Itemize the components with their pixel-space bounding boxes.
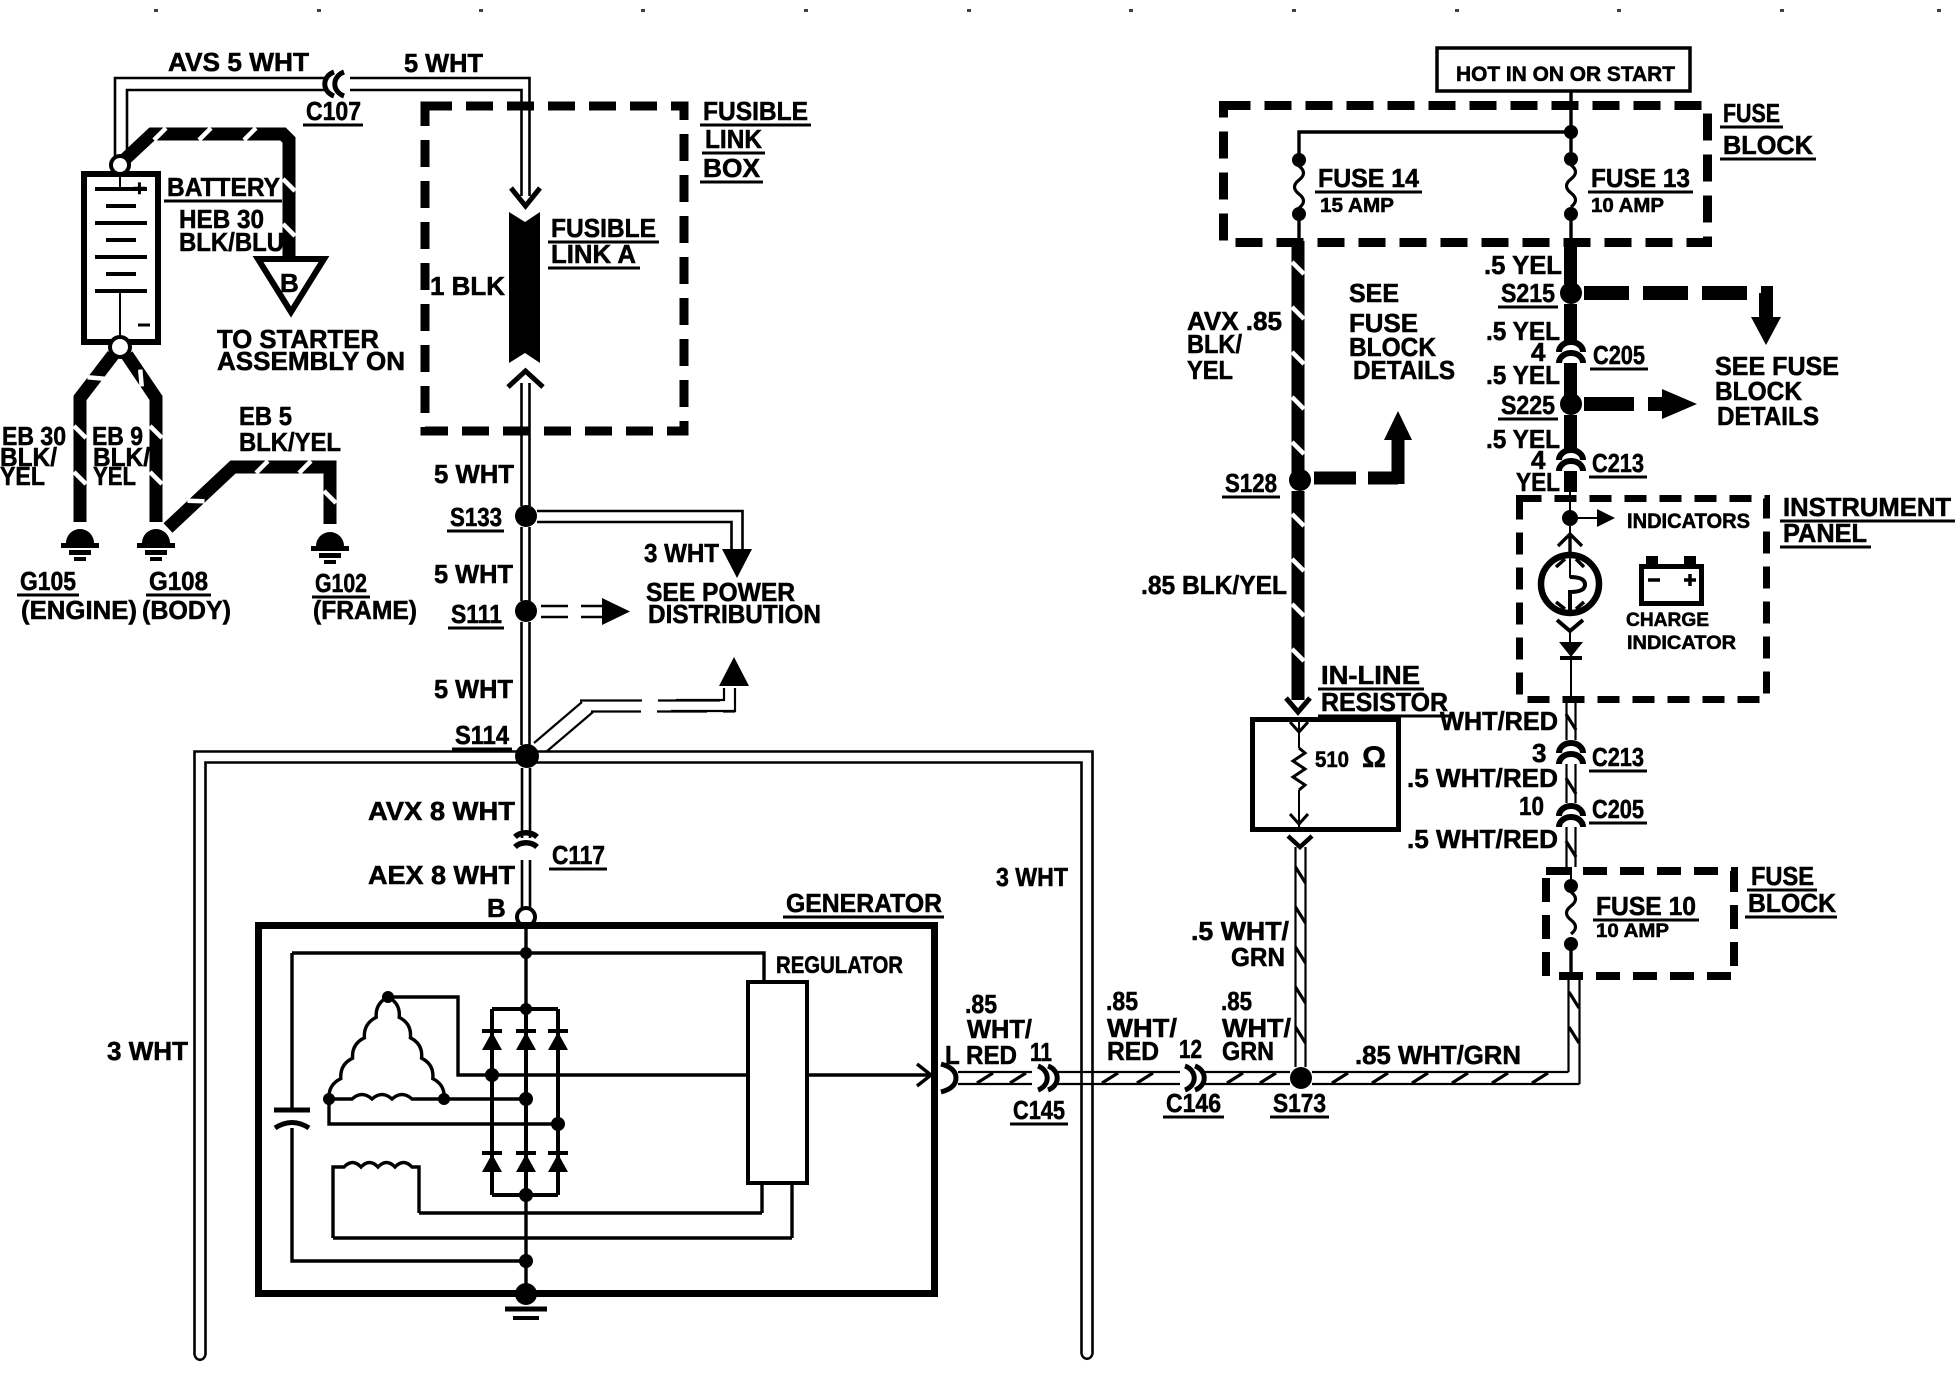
svg-text:BOX: BOX	[703, 153, 761, 183]
thick dashed arrow S128 to see fuse block details	[1314, 411, 1412, 484]
ground G105	[61, 529, 99, 559]
arrow to INDICATORS	[1578, 517, 1599, 519]
battery icon charge indicator	[1642, 556, 1702, 604]
svg-text:YEL: YEL	[1516, 467, 1560, 497]
cable EB9 to G108	[127, 355, 162, 522]
svg-text:.5 YEL: .5 YEL	[1484, 250, 1562, 280]
thick dashed arrow S225 to see fuse block details	[1584, 389, 1697, 419]
wire 5 WHT S111 to S114	[522, 622, 530, 745]
diode D1	[482, 1031, 502, 1050]
svg-text:5 WHT: 5 WHT	[434, 459, 514, 489]
svg-text:REGULATOR: REGULATOR	[776, 952, 903, 979]
wire left vertical to capacitor	[290, 953, 293, 1109]
svg-text:GRN: GRN	[1231, 942, 1285, 972]
wire .5 WHT/GRN resistor to S173 (hatched)	[1296, 847, 1306, 1067]
svg-text:FUSE 10: FUSE 10	[1596, 891, 1696, 921]
svg-text:.85 WHT/GRN: .85 WHT/GRN	[1355, 1040, 1521, 1070]
svg-text:12: 12	[1179, 1034, 1202, 1064]
wire 5 WHT fusible link to S133 (double line)	[522, 383, 530, 506]
wire .85 WHT/GRN S173 to fuse block (hatched)	[1312, 1072, 1580, 1084]
svg-text:DETAILS: DETAILS	[1353, 355, 1455, 385]
svg-text:10 AMP: 10 AMP	[1591, 195, 1664, 217]
fusible link A (thick bar)	[508, 212, 543, 387]
svg-text:.5 YEL: .5 YEL	[1486, 360, 1560, 390]
svg-text:S128: S128	[1225, 468, 1277, 498]
connector C213	[1559, 450, 1583, 471]
wire C146 to S173 (hatched)	[1203, 1072, 1290, 1084]
svg-text:3 WHT: 3 WHT	[644, 538, 719, 568]
wire YEL C213 to instrument panel	[1564, 471, 1577, 492]
svg-text:FUSE 14: FUSE 14	[1318, 163, 1420, 193]
svg-text:.85 BLK/YEL: .85 BLK/YEL	[1141, 570, 1287, 600]
stator delta winding	[329, 997, 444, 1099]
connector C205 lower	[1559, 806, 1583, 827]
ground G108	[137, 529, 175, 559]
connector C213 lower	[1559, 743, 1583, 764]
svg-text:DETAILS: DETAILS	[1717, 401, 1819, 431]
capacitor	[274, 1108, 310, 1113]
fuse F14	[1292, 153, 1306, 167]
svg-text:BLK/BLU: BLK/BLU	[179, 227, 284, 257]
svg-text:C145: C145	[1013, 1095, 1065, 1125]
svg-text:WHT/RED: WHT/RED	[1440, 706, 1558, 736]
svg-text:C213: C213	[1592, 742, 1644, 772]
rotor field coil	[333, 1163, 419, 1239]
cable EB5 to G102	[168, 461, 336, 528]
wire from HOT box into fuse block	[1569, 91, 1572, 157]
wire .5 WHT/RED C205 to fuse block (hatched)	[1566, 827, 1576, 867]
diode D3	[548, 1031, 568, 1050]
svg-text:5 WHT: 5 WHT	[404, 48, 483, 78]
svg-text:LINK A: LINK A	[551, 239, 636, 269]
splice S128	[1289, 469, 1311, 491]
diode D6	[548, 1153, 568, 1172]
connector C145	[1038, 1066, 1057, 1090]
fuse F10	[1570, 867, 1572, 882]
svg-text:AVX 8 WHT: AVX 8 WHT	[368, 796, 515, 826]
splice S114	[515, 744, 539, 768]
svg-text:FUSE 13: FUSE 13	[1591, 163, 1690, 193]
dashed arrow from S111 to SEE POWER DISTRIBUTION	[541, 598, 630, 625]
svg-text:S173: S173	[1273, 1088, 1326, 1118]
svg-text:(BODY): (BODY)	[142, 595, 231, 625]
svg-text:GRN: GRN	[1222, 1036, 1274, 1066]
fuse block (dashed)	[1224, 106, 1708, 243]
svg-text:C117: C117	[552, 840, 605, 870]
svg-text:510: 510	[1315, 747, 1349, 772]
svg-text:YEL: YEL	[93, 461, 136, 491]
wire WHT/RED panel to C213 (hatched)	[1566, 703, 1576, 740]
svg-text:15 AMP: 15 AMP	[1320, 195, 1394, 217]
svg-text:YEL: YEL	[1187, 355, 1233, 385]
ground generator	[515, 1283, 537, 1305]
node feed junction	[1564, 125, 1578, 139]
splice S225	[1560, 393, 1582, 415]
svg-text:YEL: YEL	[0, 461, 45, 491]
svg-text:IN-LINE: IN-LINE	[1321, 660, 1420, 690]
generator box	[259, 926, 935, 1294]
svg-text:SEE: SEE	[1349, 278, 1399, 308]
svg-text:3 WHT: 3 WHT	[107, 1036, 188, 1066]
wire .5 WHT/RED C213 to C205 (hatched)	[1566, 764, 1576, 803]
connector C146	[1185, 1066, 1204, 1090]
svg-text:S111: S111	[451, 599, 502, 629]
wire AVX 8 WHT S114 down to C117	[522, 768, 530, 838]
svg-text:RESISTOR: RESISTOR	[1321, 687, 1448, 717]
svg-text:PANEL: PANEL	[1783, 518, 1867, 548]
node indicators junction	[1562, 510, 1578, 526]
svg-text:S114: S114	[455, 720, 509, 750]
svg-text:.5 WHT/RED: .5 WHT/RED	[1407, 763, 1558, 793]
svg-text:.85: .85	[1221, 986, 1252, 1016]
connector chevron below resistor	[1288, 836, 1312, 847]
svg-text:11: 11	[1030, 1037, 1052, 1067]
svg-text:10: 10	[1519, 791, 1544, 821]
connector marks below junction	[1569, 526, 1571, 540]
wire regulator output L with arrow	[807, 1073, 929, 1076]
svg-text:S215: S215	[1501, 278, 1555, 308]
svg-text:(FRAME): (FRAME)	[313, 595, 417, 625]
svg-text:10 AMP: 10 AMP	[1596, 921, 1669, 942]
splice S133	[515, 505, 537, 527]
splice S111	[515, 600, 537, 622]
wire center leg to ground	[524, 1195, 527, 1294]
diode D5	[516, 1153, 536, 1172]
svg-text:FUSE: FUSE	[1723, 98, 1780, 128]
rectifier bridge rails	[492, 1007, 558, 1011]
svg-text:S225: S225	[1501, 390, 1555, 420]
svg-text:5 WHT: 5 WHT	[434, 674, 513, 704]
wire .5 YEL C205 to S225 (thick)	[1564, 363, 1577, 396]
arrow into fusible link	[511, 188, 540, 206]
svg-text:INDICATOR: INDICATOR	[1627, 633, 1736, 654]
fusible link box (dashed)	[425, 106, 684, 431]
wire AVS 5 WHT from battery to C107 and fusible link box (double line)	[115, 78, 540, 206]
svg-text:1 BLK: 1 BLK	[430, 271, 505, 301]
wire 3 WHT branch from S133 to SEE POWER DISTRIBUTION arrow	[537, 511, 752, 578]
triangle B to starter	[258, 259, 324, 312]
svg-text:G105: G105	[20, 566, 76, 596]
svg-text:.5 WHT/RED: .5 WHT/RED	[1407, 824, 1558, 854]
svg-text:AVS 5 WHT: AVS 5 WHT	[168, 47, 309, 77]
svg-text:G108: G108	[149, 566, 208, 596]
wire C145 to C146 (hatched, crosses 3 WHT)	[1058, 1072, 1180, 1084]
HOT IN ON OR START box	[1437, 48, 1690, 91]
svg-text:+: +	[133, 176, 146, 201]
wire capacitor to bottom junction	[292, 1128, 520, 1261]
svg-text:AEX 8 WHT: AEX 8 WHT	[368, 860, 515, 890]
fuse F13	[1564, 152, 1578, 166]
svg-text:BLOCK: BLOCK	[1748, 888, 1836, 918]
svg-text:LINK: LINK	[705, 124, 762, 154]
horizontal double line from S114 to right, down to page bottom (3 WHT)	[540, 752, 1093, 1359]
battery B+ cable to starter (thick, white slashes)	[122, 128, 295, 258]
svg-text:INDICATORS: INDICATORS	[1627, 510, 1750, 533]
wire .85 WHT/RED generator to C145 (hatched)	[958, 1072, 1032, 1084]
connector terminal at generator output	[941, 1064, 956, 1092]
wire into panel	[1569, 492, 1571, 512]
wire .5 YEL S225 to C213 (thick)	[1564, 415, 1577, 449]
diode D4	[482, 1153, 502, 1172]
wire inner top feed to regulator	[292, 953, 764, 982]
svg-text:B: B	[280, 268, 299, 298]
ground G102	[311, 532, 349, 562]
wire .85 BLK/YEL S128 to in-line resistor (thick with slashes)	[1286, 491, 1310, 712]
dashed branch from S114 up-right to arrow	[534, 657, 749, 752]
splice S173	[1290, 1067, 1312, 1089]
svg-text:.5 YEL: .5 YEL	[1486, 316, 1560, 346]
svg-text:RED: RED	[1107, 1036, 1159, 1066]
connector Y below lamp	[1557, 620, 1583, 631]
svg-text:FUSIBLE: FUSIBLE	[703, 96, 808, 126]
registration tick marks top	[154, 9, 1941, 12]
svg-text:FUSE: FUSE	[1751, 861, 1814, 891]
diode in panel	[1559, 642, 1583, 657]
wire B vertical into generator	[524, 926, 527, 1010]
connector C107	[325, 72, 344, 96]
svg-text:CHARGE: CHARGE	[1626, 610, 1709, 631]
wire AEX 8 WHT C117 down to B terminal	[522, 860, 530, 908]
wire 5 WHT S133 to S111	[522, 527, 530, 601]
splice S215	[1560, 282, 1582, 304]
diode D2	[516, 1031, 536, 1050]
svg-text:B: B	[487, 893, 506, 923]
wire phase C to right leg	[329, 1099, 558, 1124]
svg-text:.85: .85	[1106, 986, 1138, 1016]
svg-text:C146: C146	[1166, 1088, 1221, 1118]
svg-text:DISTRIBUTION: DISTRIBUTION	[648, 599, 821, 629]
fuse block 2 (dashed)	[1546, 871, 1734, 976]
svg-text:C205: C205	[1592, 794, 1644, 824]
svg-text:Ω: Ω	[1362, 741, 1386, 774]
instrument panel box (dashed)	[1520, 499, 1767, 700]
svg-text:BLK/YEL: BLK/YEL	[239, 427, 341, 457]
wire .5 YEL fuse 13 to S215 (thick)	[1564, 247, 1577, 284]
svg-text:HOT IN ON OR START: HOT IN ON OR START	[1456, 63, 1675, 86]
battery	[84, 156, 158, 357]
svg-text:ASSEMBLY ON: ASSEMBLY ON	[217, 346, 405, 376]
wire .5 YEL S215 to C205 (thick)	[1564, 304, 1577, 341]
cable EB30 to G105	[74, 355, 113, 522]
svg-text:BLOCK: BLOCK	[1723, 130, 1813, 160]
svg-text:C205: C205	[1593, 340, 1645, 370]
horizontal double line from S114 to left, down to page bottom (3 WHT)	[195, 752, 541, 1360]
connector C117	[515, 833, 537, 847]
charge indicator lamp	[1541, 555, 1599, 613]
svg-text:BATTERY: BATTERY	[167, 172, 280, 202]
svg-text:C107: C107	[306, 96, 361, 126]
node bottom junction	[519, 1254, 533, 1268]
in-line resistor R 510 ohm	[1253, 720, 1399, 830]
wire phase A from apex to rectifier and regulator	[388, 997, 748, 1075]
wire field to regulator pins	[419, 1211, 762, 1214]
wire fuse 10 down to S173 (hatched, corner)	[1569, 976, 1580, 1084]
svg-text:(ENGINE): (ENGINE)	[21, 595, 137, 625]
svg-text:S133: S133	[450, 502, 502, 532]
thick dashed arrow S215 to see fuse block details	[1584, 293, 1781, 345]
wire bus to fuse 14	[1299, 132, 1571, 158]
node junction B/top feed	[520, 947, 532, 959]
svg-text:5 WHT: 5 WHT	[434, 559, 513, 589]
wire phase B to center leg	[444, 1097, 526, 1100]
svg-text:C213: C213	[1592, 448, 1644, 478]
svg-text:G102: G102	[315, 568, 367, 598]
svg-text:GENERATOR: GENERATOR	[786, 888, 942, 918]
svg-text:3 WHT: 3 WHT	[996, 862, 1068, 892]
wire AVX .85 BLK/YEL fuse 14 to S128 (thick with slashes)	[1292, 241, 1304, 473]
svg-text:L RED: L RED	[945, 1040, 1017, 1070]
svg-text:.5 YEL: .5 YEL	[1486, 424, 1560, 454]
connector C205	[1559, 342, 1583, 363]
